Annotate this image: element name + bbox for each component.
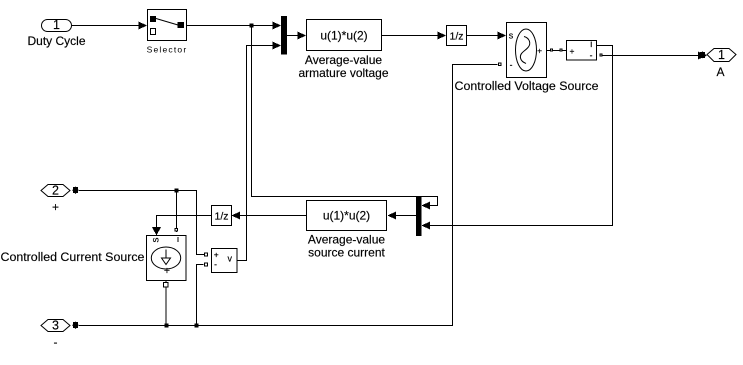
svg-text:-: - [214, 259, 217, 269]
wire port 2 to v-meas plus [79, 191, 204, 255]
CCS plus port wire down to port3 net [164, 281, 169, 326]
svg-text:+: + [570, 46, 575, 56]
svg-text:Selector: Selector [147, 45, 188, 55]
junction v-meas minus on port3 wire [195, 324, 199, 328]
wire junction down to mux M2 hook [252, 26, 438, 210]
svg-text:+: + [537, 45, 542, 55]
svg-text:armature voltage: armature voltage [298, 66, 388, 80]
port 3 connection port [41, 318, 79, 349]
svg-text:3: 3 [52, 318, 59, 332]
wire junction down to CCS minus port [175, 191, 178, 233]
svg-text:-: - [54, 335, 58, 349]
unit delay Z2 output to CCS s input [152, 216, 212, 236]
svg-text:u(1)*u(2): u(1)*u(2) [323, 209, 370, 223]
wire mux M2 output to product P2 [388, 212, 417, 220]
port 2 connection port [41, 183, 79, 214]
wire mux M1 to product P1 [287, 32, 306, 40]
wire Selector to mux M1 [187, 22, 281, 30]
svg-text:-: - [590, 50, 593, 60]
svg-text:i: i [590, 39, 592, 49]
svg-text:Controlled Current Source: Controlled Current Source [1, 250, 145, 264]
svg-text:2: 2 [52, 183, 59, 197]
svg-text:+: + [52, 200, 59, 214]
CVS output wire to current measurement [547, 49, 566, 51]
junction on port2 wire [175, 189, 179, 193]
inport 1 Duty Cycle [28, 18, 86, 48]
svg-text:Controlled Voltage Source: Controlled Voltage Source [455, 79, 599, 93]
product P2 u(1)*u(2) [307, 201, 387, 260]
current measurement M3 [567, 39, 597, 60]
svg-text:+: + [164, 265, 170, 277]
svg-text:1/z: 1/z [214, 211, 228, 223]
svg-text:+: + [214, 249, 219, 259]
svg-text:s: s [151, 238, 162, 243]
junction on selector output [250, 24, 254, 28]
wire port3 net up to CVS minus input [79, 63, 501, 326]
svg-text:1: 1 [718, 48, 725, 62]
wire unit delay Z1 to CVS s input [467, 32, 507, 40]
outport A connection port [707, 48, 736, 79]
svg-text:-: - [510, 59, 513, 69]
controlled current source U2 [1, 236, 187, 281]
wire v-meas minus down to port3 net [197, 265, 204, 326]
svg-text:u(1)*u(2): u(1)*u(2) [320, 29, 367, 43]
wire product P1 to unit delay Z1 [382, 32, 447, 40]
wire port1 to Selector [72, 22, 147, 30]
wire current meas minus to outport A [600, 51, 707, 59]
unit delay Z2 1/z [212, 206, 232, 226]
wire v-meas output up to mux M1 input 2 [238, 42, 282, 261]
svg-text:1: 1 [53, 18, 60, 32]
svg-text:s: s [509, 30, 514, 40]
svg-text:1/z: 1/z [449, 31, 463, 43]
selector block [147, 10, 188, 55]
svg-text:A: A [716, 65, 724, 79]
mux M1 [281, 16, 287, 55]
svg-text:Average-value: Average-value [305, 53, 382, 67]
svg-text:source current: source current [308, 246, 385, 260]
svg-text:v: v [227, 254, 232, 264]
controlled voltage source U1 [455, 23, 599, 94]
wire product P2 to unit delay Z2 [232, 212, 307, 220]
unit delay Z1 1/z [447, 26, 467, 46]
v measurement M4 [205, 249, 238, 273]
svg-text:Average-value: Average-value [308, 233, 385, 247]
junction CCS plus on port3 wire [165, 324, 169, 328]
mux M2 [416, 196, 422, 236]
svg-text:Duty Cycle: Duty Cycle [28, 34, 86, 48]
product P1 u(1)*u(2) [298, 20, 388, 81]
wire current meas i output down to mux M2 input 2 [422, 46, 613, 230]
